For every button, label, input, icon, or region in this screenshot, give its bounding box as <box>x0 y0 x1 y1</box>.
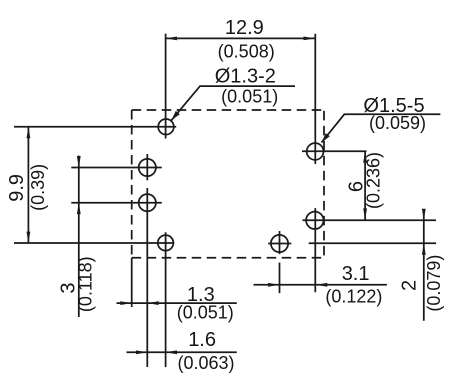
svg-text:(0.063): (0.063) <box>177 353 234 373</box>
svg-text:(0.079): (0.079) <box>424 255 444 312</box>
svg-text:3.1: 3.1 <box>342 263 370 285</box>
svg-text:(0.236): (0.236) <box>364 152 384 209</box>
svg-text:(0.051): (0.051) <box>221 86 278 106</box>
svg-text:12.9: 12.9 <box>225 17 264 39</box>
svg-text:(0.122): (0.122) <box>325 286 382 306</box>
svg-text:2: 2 <box>399 280 421 291</box>
svg-text:9.9: 9.9 <box>6 174 28 202</box>
svg-text:(0.508): (0.508) <box>218 42 275 62</box>
svg-text:(0.39): (0.39) <box>28 164 48 211</box>
svg-text:(0.059): (0.059) <box>369 113 426 133</box>
svg-text:(0.118): (0.118) <box>76 256 96 312</box>
svg-text:1.6: 1.6 <box>188 329 216 351</box>
svg-text:(0.051): (0.051) <box>177 303 234 323</box>
svg-text:Ø1.3-2: Ø1.3-2 <box>215 66 276 88</box>
